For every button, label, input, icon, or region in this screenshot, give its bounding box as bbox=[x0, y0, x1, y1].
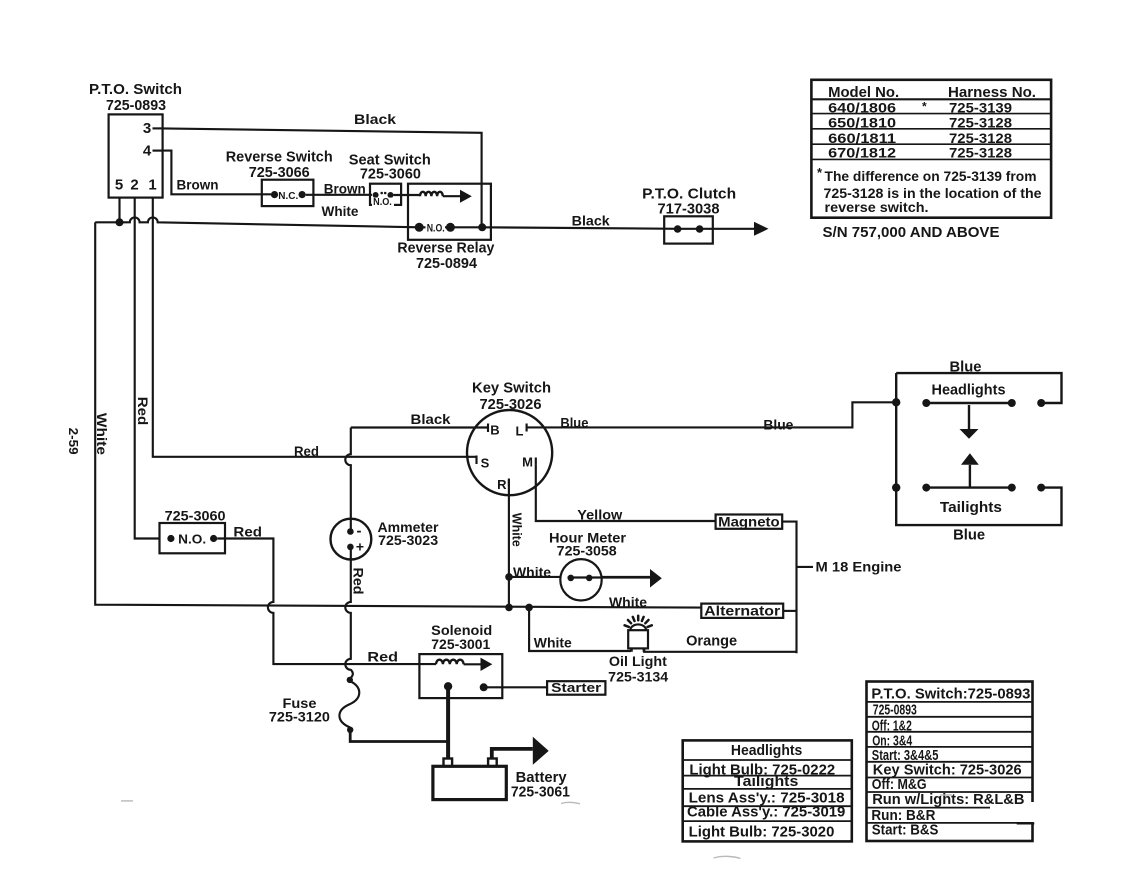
svg-text:N.C.: N.C. bbox=[278, 191, 298, 202]
svg-text:725-3061: 725-3061 bbox=[511, 783, 570, 800]
svg-text:Tailights: Tailights bbox=[940, 499, 1002, 516]
svg-text:Yellow: Yellow bbox=[577, 507, 622, 523]
svg-text:P.T.O. Switch:725-0893: P.T.O. Switch:725-0893 bbox=[871, 685, 1030, 702]
svg-text:1: 1 bbox=[148, 177, 156, 194]
svg-text:P.T.O. Switch: P.T.O. Switch bbox=[89, 81, 182, 98]
svg-text:Cable Ass'y.: 725-3019: Cable Ass'y.: 725-3019 bbox=[687, 804, 845, 821]
svg-text:Start: B&S: Start: B&S bbox=[872, 821, 939, 838]
svg-text:Red: Red bbox=[351, 568, 367, 595]
svg-text:Light Bulb: 725-3020: Light Bulb: 725-3020 bbox=[689, 824, 835, 841]
svg-text:Blue: Blue bbox=[953, 526, 985, 543]
svg-text:Blue: Blue bbox=[950, 359, 982, 376]
svg-text:4: 4 bbox=[143, 143, 152, 160]
svg-text:Reverse Relay: Reverse Relay bbox=[397, 239, 495, 256]
svg-text:Headlights: Headlights bbox=[932, 381, 1006, 398]
svg-text:N.O.: N.O. bbox=[373, 197, 392, 208]
svg-text:725-3066: 725-3066 bbox=[249, 164, 310, 181]
svg-text:-: - bbox=[357, 523, 362, 540]
svg-text:725-0893: 725-0893 bbox=[106, 97, 166, 114]
svg-text:Reverse Switch: Reverse Switch bbox=[226, 148, 333, 165]
svg-text:White: White bbox=[609, 594, 647, 610]
svg-text:Magneto: Magneto bbox=[718, 513, 780, 529]
svg-text:+: + bbox=[356, 539, 364, 555]
svg-text:Red: Red bbox=[233, 524, 262, 540]
svg-text:725-3060: 725-3060 bbox=[360, 166, 421, 183]
svg-text:White: White bbox=[94, 413, 110, 455]
svg-text:M 18 Engine: M 18 Engine bbox=[816, 559, 902, 575]
svg-text:White: White bbox=[513, 564, 551, 580]
svg-text:Blue: Blue bbox=[560, 414, 588, 430]
svg-text:725-3120: 725-3120 bbox=[269, 709, 330, 725]
svg-text:5: 5 bbox=[115, 177, 123, 194]
svg-text:N.O.: N.O. bbox=[178, 532, 206, 546]
svg-text:M: M bbox=[522, 454, 533, 469]
svg-text:White: White bbox=[322, 203, 359, 219]
svg-text:Blue: Blue bbox=[763, 416, 793, 432]
svg-text:Red: Red bbox=[367, 649, 398, 665]
svg-text:Red: Red bbox=[294, 443, 319, 459]
svg-text:N.O.: N.O. bbox=[427, 222, 445, 234]
svg-text:L: L bbox=[516, 424, 524, 439]
svg-text:717-3038: 717-3038 bbox=[658, 201, 720, 218]
svg-text:Black: Black bbox=[411, 411, 451, 427]
svg-text:725-3060: 725-3060 bbox=[165, 508, 226, 524]
svg-text:Brown: Brown bbox=[324, 180, 366, 196]
svg-text:Black: Black bbox=[354, 111, 396, 127]
svg-text:Orange: Orange bbox=[686, 633, 737, 649]
svg-text:Key Switch: Key Switch bbox=[472, 380, 551, 397]
svg-text:R: R bbox=[497, 477, 507, 492]
svg-text:725-3058: 725-3058 bbox=[557, 543, 617, 559]
svg-text:*: * bbox=[922, 100, 927, 114]
svg-text:Tailights: Tailights bbox=[734, 773, 798, 790]
svg-text:3: 3 bbox=[143, 120, 151, 137]
svg-text:Alternator: Alternator bbox=[704, 602, 781, 618]
svg-text:Headlights: Headlights bbox=[731, 742, 802, 759]
svg-text:725-3128: 725-3128 bbox=[949, 145, 1012, 161]
svg-text:S/N 757,000 AND ABOVE: S/N 757,000 AND ABOVE bbox=[823, 224, 1000, 241]
svg-text:725-3023: 725-3023 bbox=[378, 532, 438, 548]
svg-text:Oil Light: Oil Light bbox=[609, 653, 667, 669]
svg-text:725-0894: 725-0894 bbox=[416, 255, 478, 272]
svg-text:White: White bbox=[534, 635, 572, 651]
svg-text:725-3134: 725-3134 bbox=[608, 668, 668, 684]
svg-text:Black: Black bbox=[572, 212, 610, 228]
svg-text:reverse switch.: reverse switch. bbox=[825, 199, 929, 215]
svg-text:2: 2 bbox=[130, 177, 138, 194]
svg-text:725-3001: 725-3001 bbox=[431, 636, 490, 652]
svg-text:B: B bbox=[490, 423, 499, 438]
svg-text:Red: Red bbox=[135, 397, 151, 426]
svg-text:Brown: Brown bbox=[177, 176, 219, 192]
svg-text:White: White bbox=[510, 513, 524, 547]
svg-text:2-59: 2-59 bbox=[66, 428, 80, 455]
svg-text:The difference on 725-3139 fro: The difference on 725-3139 from bbox=[825, 168, 1037, 184]
svg-text:670/1812: 670/1812 bbox=[828, 145, 896, 161]
svg-text:Starter: Starter bbox=[551, 680, 601, 695]
svg-text:S: S bbox=[481, 456, 490, 471]
